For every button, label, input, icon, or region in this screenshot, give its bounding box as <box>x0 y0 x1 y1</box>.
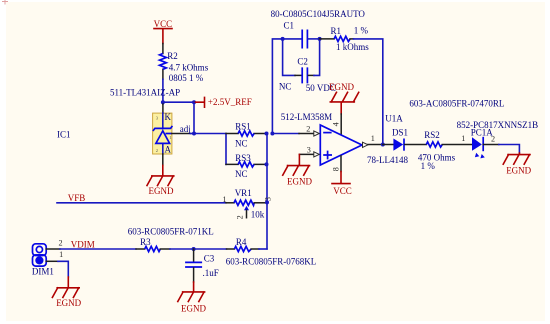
ground EGND (DIM1) <box>52 277 81 308</box>
svg-text:4.7 kOhms: 4.7 kOhms <box>169 62 209 72</box>
connector DIM1 <box>32 239 63 277</box>
capacitor C2 (parallel branch) <box>279 39 336 93</box>
ground EGND (op-amp pin 3) <box>283 154 313 186</box>
svg-text:U1A: U1A <box>385 114 403 124</box>
svg-text:VDIM: VDIM <box>71 239 95 249</box>
svg-text:1: 1 <box>223 195 227 204</box>
svg-text:1 %: 1 % <box>421 161 436 171</box>
ground EGND (C3) <box>178 282 207 313</box>
capacitor C3 <box>185 249 219 282</box>
svg-text:C3: C3 <box>204 254 215 264</box>
wire feedback left vertical (C1 to pin2 node) <box>272 39 282 134</box>
wire adj node to RS1/RS3 <box>194 133 226 135</box>
svg-text:C2: C2 <box>297 56 308 66</box>
svg-text:1: 1 <box>371 134 375 143</box>
svg-text:RS2: RS2 <box>424 130 440 140</box>
sheet origin cross <box>2 0 8 5</box>
svg-text:EGND: EGND <box>181 303 206 313</box>
svg-text:RS1: RS1 <box>235 122 251 132</box>
node junction C1 left <box>281 37 285 41</box>
wire R4 to bus vertical <box>259 248 267 250</box>
wire R1 to feedback vertical <box>354 39 383 145</box>
capacitor C1 <box>283 20 320 48</box>
svg-text:DIM1: DIM1 <box>32 266 54 276</box>
node junction RS1 right <box>265 132 269 136</box>
svg-text:VFB: VFB <box>68 193 86 203</box>
adj pin line <box>166 133 172 135</box>
potentiometer VR1 10k <box>223 188 273 220</box>
svg-text:603-RC0805FR-071KL: 603-RC0805FR-071KL <box>128 226 214 236</box>
svg-text:VR1: VR1 <box>235 188 252 198</box>
svg-text:VCC: VCC <box>154 19 173 29</box>
node junction R2/+2.5V_REF <box>161 100 165 104</box>
diode triangle <box>156 131 170 144</box>
wire R3 to C3 node <box>170 248 227 250</box>
svg-text:NC: NC <box>279 82 292 92</box>
svg-text:IC1: IC1 <box>57 129 71 139</box>
optocoupler LED PC1A <box>461 127 499 158</box>
svg-text:4: 4 <box>332 122 341 126</box>
svg-text:+2.5V_REF: +2.5V_REF <box>208 97 252 107</box>
wire inverting bus vertical (RS1 to R4) <box>266 134 268 249</box>
resistor RS2 <box>418 130 472 171</box>
svg-text:EGND: EGND <box>56 298 81 308</box>
wire DIM1 pin2 to R3 <box>60 248 136 250</box>
power port VCC (top) <box>154 19 173 44</box>
svg-text:3: 3 <box>307 146 311 155</box>
svg-text:2: 2 <box>156 148 158 153</box>
pin 4 <box>340 114 342 134</box>
svg-text:R1: R1 <box>331 26 342 36</box>
wire PC1A pin2 to ground <box>499 145 520 154</box>
svg-text:2: 2 <box>59 239 63 248</box>
resistor RS3 (NC) <box>226 153 267 179</box>
LED emission arrows <box>475 153 479 157</box>
node junction op-amp output <box>381 143 385 147</box>
svg-text:R4: R4 <box>236 237 247 247</box>
svg-text:852-PC817XNNSZ1B: 852-PC817XNNSZ1B <box>457 120 539 130</box>
svg-text:NC: NC <box>235 169 248 179</box>
pin 2 wire <box>272 133 299 135</box>
node junction C1 right <box>318 37 322 41</box>
svg-text:C1: C1 <box>284 20 295 30</box>
svg-text:78-LL4148: 78-LL4148 <box>367 155 408 165</box>
svg-text:RS3: RS3 <box>235 153 251 163</box>
ground EGND (under IC1) <box>147 165 174 196</box>
power port VCC (op-amp pin 8) <box>332 172 352 197</box>
pin 1 output <box>363 142 369 147</box>
svg-text:603-RC0805FR-0768KL: 603-RC0805FR-0768KL <box>226 256 317 266</box>
node junction adj <box>192 132 196 136</box>
pin 8 <box>340 156 342 172</box>
plus symbol <box>323 151 332 160</box>
svg-text:603-AC0805FR-07470RL: 603-AC0805FR-07470RL <box>409 98 504 108</box>
resistor R1 <box>320 25 370 52</box>
svg-text:EGND: EGND <box>329 82 354 92</box>
resistor R3 <box>136 237 170 251</box>
svg-text:2: 2 <box>491 135 495 144</box>
triangle body <box>320 125 362 165</box>
svg-text:512-LM358M: 512-LM358M <box>281 112 333 122</box>
power port +2.5V_REF <box>194 97 252 107</box>
svg-text:EGND: EGND <box>149 186 174 196</box>
svg-text:R2: R2 <box>167 51 178 61</box>
svg-text:1: 1 <box>59 250 63 259</box>
diode DS1 LL4148 <box>367 127 426 165</box>
svg-text:1 kOhms: 1 kOhms <box>336 42 369 52</box>
svg-text:EGND: EGND <box>287 176 312 186</box>
pin 3 wire <box>299 153 313 155</box>
svg-text:PC1A: PC1A <box>471 127 494 137</box>
svg-text:1 %: 1 % <box>354 25 369 35</box>
cathode bar with zener ticks <box>153 126 173 131</box>
wire +2.5V_REF down to adj node <box>193 102 195 133</box>
svg-text:K: K <box>165 112 172 122</box>
ground EGND (above op-amp, flipped) <box>329 82 359 114</box>
svg-text:511-TL431AIZ-AP: 511-TL431AIZ-AP <box>110 88 180 98</box>
wire RS1-RS3 left vertical <box>225 134 227 165</box>
node junction VR1 pin3 <box>265 200 269 204</box>
resistor R4 <box>227 237 260 251</box>
svg-text:80-C0805C104J5RAUTO: 80-C0805C104J5RAUTO <box>271 9 366 19</box>
node junction C3 <box>192 247 196 251</box>
IC1 anode pin to ground <box>162 154 164 165</box>
svg-text:adj: adj <box>180 124 191 134</box>
pin 2 <box>46 248 60 250</box>
wiper arrow pin 2 <box>244 206 249 210</box>
svg-text:1: 1 <box>461 134 465 143</box>
svg-text:R3: R3 <box>140 237 151 247</box>
resistor R2 <box>160 44 209 84</box>
wire VFB to VR1 <box>57 202 226 204</box>
node junction pin2/feedback <box>270 132 274 136</box>
svg-text:10k: 10k <box>251 210 265 220</box>
svg-text:DS1: DS1 <box>392 127 408 137</box>
svg-text:3: 3 <box>263 197 272 201</box>
svg-text:2: 2 <box>236 215 245 219</box>
svg-text:EGND: EGND <box>506 166 531 176</box>
svg-text:0805 1 %: 0805 1 % <box>169 73 204 83</box>
node junction RS3 right <box>265 162 269 166</box>
svg-text:1: 1 <box>169 135 171 140</box>
svg-text:NC: NC <box>235 138 248 148</box>
svg-text:A: A <box>165 144 172 154</box>
wire VCC node down to IC1 <box>162 79 164 104</box>
svg-text:VCC: VCC <box>333 186 352 196</box>
wire to +2.5V_REF tap <box>163 101 194 103</box>
minus symbol <box>323 132 331 134</box>
wire DIM1 pin1 to ground <box>58 261 68 277</box>
ground EGND (right) <box>503 153 531 176</box>
node junction +2.5V_REF vertical <box>192 100 196 104</box>
shunt regulator IC1 TL431 <box>57 104 194 154</box>
op-amp U1A LM358 <box>270 112 403 172</box>
svg-text:8: 8 <box>332 167 341 171</box>
pin 1 <box>46 260 58 262</box>
svg-text:2: 2 <box>306 125 310 134</box>
resistor RS1 (NC) <box>226 122 267 149</box>
svg-text:.1uF: .1uF <box>203 268 219 278</box>
